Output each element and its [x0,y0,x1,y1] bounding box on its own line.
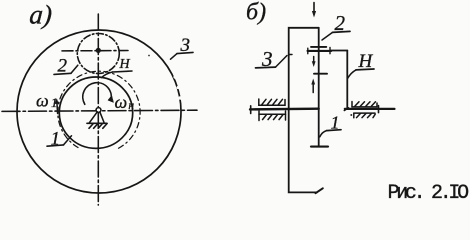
svg-text:а): а) [28,0,53,29]
svg-text:3: 3 [261,47,273,71]
svg-text:2: 2 [335,11,346,35]
svg-text:ω: ω [115,92,128,112]
svg-text:б): б) [246,0,266,26]
svg-text:1: 1 [51,95,58,110]
svg-text:1: 1 [331,112,340,132]
svg-text:Н: Н [119,57,131,72]
svg-text:2: 2 [58,56,68,77]
svg-text:3: 3 [180,35,191,56]
svg-text:ω: ω [36,90,49,110]
svg-text:Рис. 2.IO: Рис. 2.IO [388,182,469,205]
svg-text:Н: Н [358,51,374,72]
svg-text:н: н [128,100,134,112]
svg-text:1: 1 [51,129,61,150]
